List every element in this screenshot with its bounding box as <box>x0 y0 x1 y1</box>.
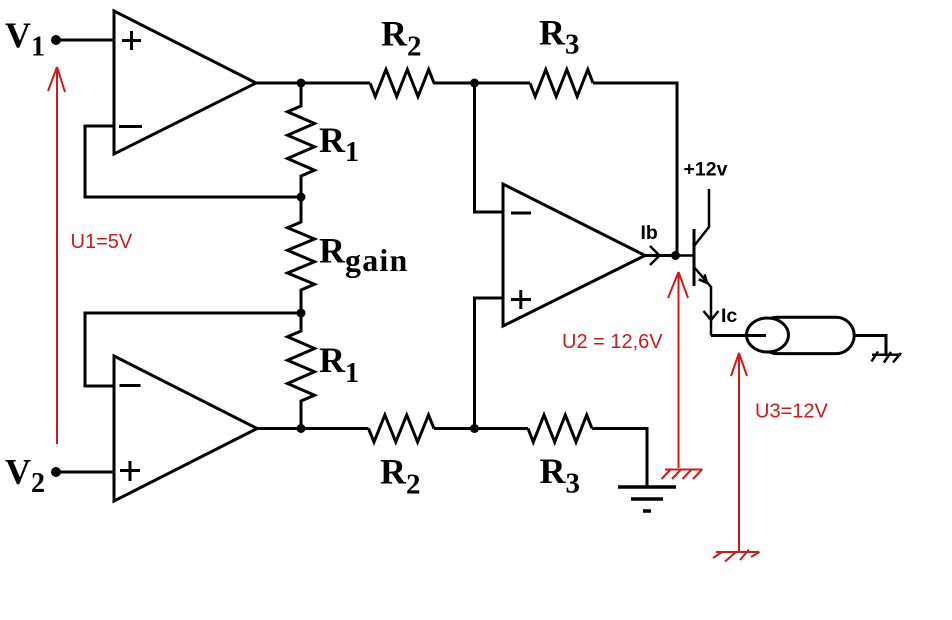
voltage arrow U2 <box>668 272 688 468</box>
label R1 top <box>319 120 359 168</box>
resistor R3 (bottom) <box>528 415 592 442</box>
resistor Rgain <box>288 197 315 313</box>
Ic current arrowhead <box>704 311 719 320</box>
label Ic <box>721 305 737 327</box>
op-amp U3 (middle) <box>503 184 645 326</box>
chassis ground (hatched) <box>872 352 902 363</box>
label U2 = 12,6V <box>562 331 663 353</box>
label R1 bottom <box>319 340 359 389</box>
svg-text:U1=5V: U1=5V <box>71 231 133 253</box>
label R3 bottom <box>540 451 581 500</box>
wire R3 top to transistor base node <box>593 83 677 256</box>
load (cylinder front face circle) <box>747 318 789 352</box>
ground red hatched (U3 reference) <box>713 550 760 562</box>
Ib current arrowhead <box>650 246 660 265</box>
wire R2 bottom to R3 bottom <box>434 427 528 430</box>
label R2 bottom <box>380 452 421 501</box>
svg-text:R2: R2 <box>381 14 422 63</box>
transistor Q1 <box>676 189 712 336</box>
ground red hatched (U2 reference) <box>662 470 703 480</box>
resistor R2 (top) <box>370 70 434 97</box>
voltage arrow U3 <box>731 353 747 551</box>
voltage arrow U1 <box>48 67 65 444</box>
op-amp U1 (top left) <box>114 11 256 154</box>
node dot bottom junction <box>470 424 479 433</box>
label +12v <box>684 159 728 181</box>
svg-text:U2 = 12,6V: U2 = 12,6V <box>562 331 663 353</box>
node dot R1 top / Rgain <box>297 193 306 202</box>
node dot output U2 amp <box>297 424 306 433</box>
svg-text:Ic: Ic <box>721 305 737 327</box>
label R3 top <box>539 13 580 61</box>
svg-text:R2: R2 <box>380 452 421 501</box>
label U3=12V <box>755 401 828 423</box>
ground (power ground, 3 bars) <box>618 487 676 511</box>
label Ib <box>641 222 658 244</box>
node V2 input dot <box>51 467 61 477</box>
resistor R2 (bottom) <box>369 415 435 442</box>
label Rgain <box>319 231 409 279</box>
node V1 input dot <box>51 35 61 45</box>
resistor R3 (top) <box>530 70 593 97</box>
node dot base <box>671 251 680 260</box>
wire V2 to U2 + input <box>56 471 114 474</box>
svg-text:R1: R1 <box>319 120 359 168</box>
svg-text:U3=12V: U3=12V <box>755 401 828 423</box>
wire R2 top to R3 top <box>433 82 530 85</box>
wire load to chassis ground <box>854 336 886 355</box>
wire top junction to U3 inverting input <box>475 83 504 212</box>
label U1=5V <box>71 231 133 253</box>
svg-text:R1: R1 <box>319 340 359 389</box>
wire U1 output to R2 <box>256 82 370 85</box>
wire bottom junction to U3 non-inverting input <box>475 298 504 429</box>
label V2 <box>5 452 45 500</box>
resistor R1 (top) <box>288 83 315 197</box>
svg-text:Ib: Ib <box>641 222 658 244</box>
wire V1 to U1 + input <box>56 39 114 42</box>
svg-text:R3: R3 <box>539 13 580 61</box>
wire R3 bottom to ground <box>592 429 647 488</box>
load (cylinder body) <box>759 317 854 353</box>
wire load into circle <box>746 334 766 337</box>
node dot output U1 <box>297 79 306 88</box>
resistor R1 (bottom) <box>288 313 315 429</box>
wire emitter to load <box>711 334 766 337</box>
node dot top junction <box>470 79 479 88</box>
wire U1 feedback (inverting input to R1/Rgain node) <box>85 126 301 197</box>
wire U2 feedback (inverting input to Rgain/R1 node) <box>85 313 301 386</box>
svg-text:+12v: +12v <box>684 159 728 181</box>
wire U3 output to base node <box>645 254 676 257</box>
op-amp U2 (bottom left) <box>114 356 257 501</box>
svg-text:V1: V1 <box>5 15 45 63</box>
node dot Rgain / R1 bottom <box>297 309 306 318</box>
svg-text:Rgain: Rgain <box>319 231 409 279</box>
svg-text:V2: V2 <box>5 452 45 500</box>
label R2 top <box>381 14 422 63</box>
wire U2 output to R2 bottom <box>257 427 369 430</box>
svg-text:R3: R3 <box>540 451 581 500</box>
label V1 <box>5 15 45 63</box>
